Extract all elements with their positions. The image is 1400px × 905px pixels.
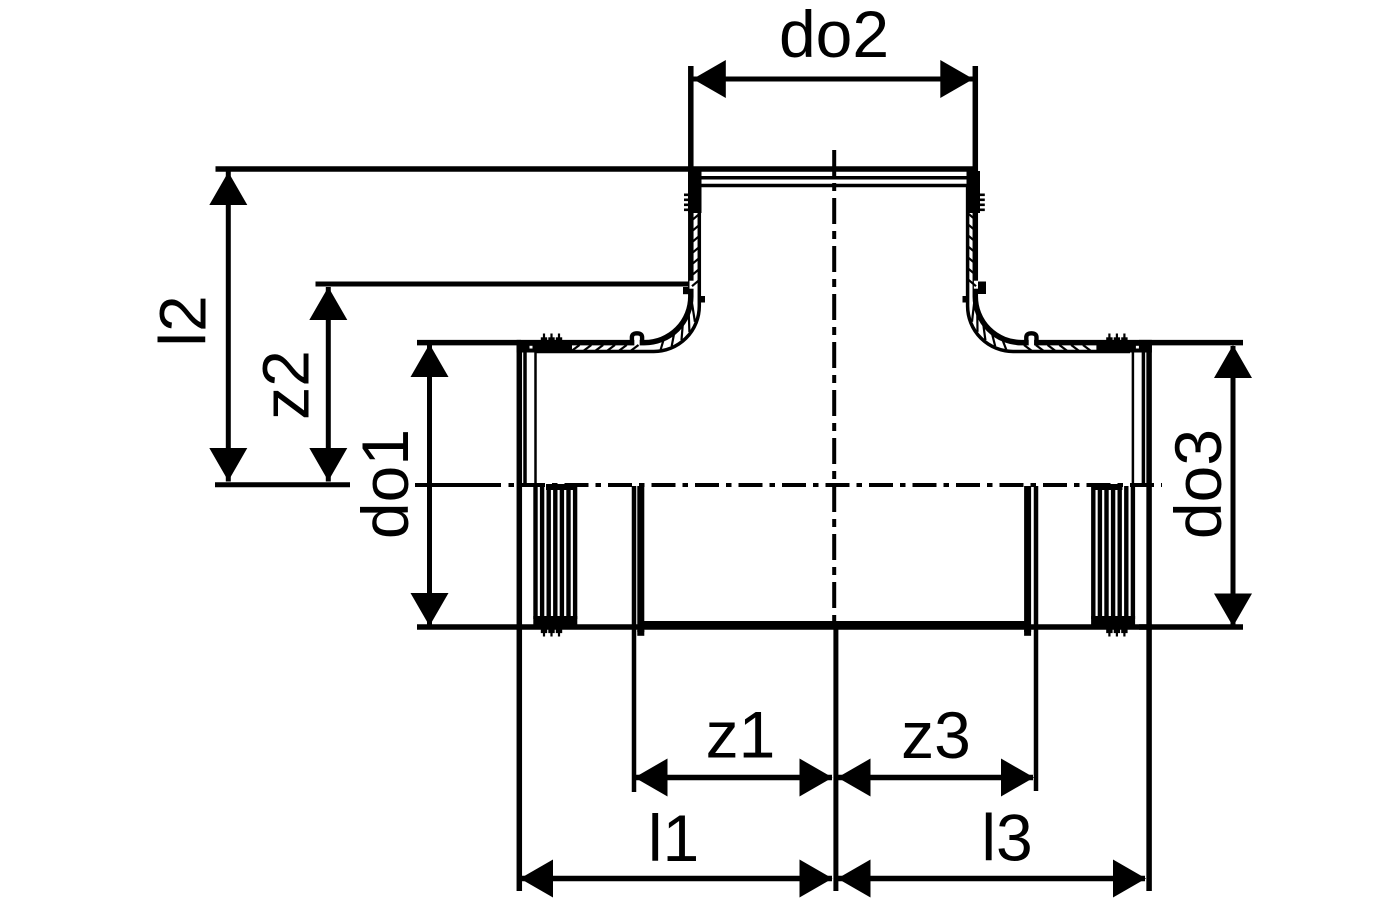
hatching right fillet <box>972 302 974 321</box>
arrowhead z1 right <box>800 759 833 797</box>
left fusion coil ribs (section lower half) <box>533 486 537 619</box>
arrowhead do3 bottom <box>1214 594 1252 627</box>
tab on branch right wall at socket depth <box>974 281 979 289</box>
top inner wall left + inner fillet <box>536 186 699 352</box>
arrowhead z3 left <box>838 759 871 797</box>
left socket lip line a <box>523 350 527 483</box>
arrowhead do3 top <box>1214 345 1252 378</box>
extension line do1 bottom <box>417 624 521 630</box>
dimension line z3 <box>838 775 1033 781</box>
weld beads top of right socket <box>1123 334 1125 342</box>
tab below bottom at left socket end <box>637 630 644 636</box>
extension line do3 top <box>1139 340 1243 346</box>
horizontal centerline of main run <box>415 483 501 487</box>
left socket lip line b <box>534 352 537 483</box>
extension line below left mouth (l1) <box>517 630 523 891</box>
hatching top wall left of branch <box>572 345 580 351</box>
branch mouth lip line 1 <box>699 176 974 180</box>
dimension line l3 <box>838 876 1145 882</box>
inner ridge branch left wall <box>699 296 705 303</box>
extension line do1 top <box>417 340 521 346</box>
arrowhead z3 right <box>1001 759 1034 797</box>
extension line below right mouth (l3) <box>1146 630 1152 891</box>
bottom inner wall <box>640 621 1027 626</box>
arrowhead l3 right <box>1113 860 1146 898</box>
weld beads top of left socket <box>543 334 545 342</box>
svg-text:z2: z2 <box>249 350 323 420</box>
arrowhead z2 bottom <box>309 448 347 481</box>
svg-text:do3: do3 <box>1161 429 1235 539</box>
tab on branch left wall at socket depth <box>690 281 695 289</box>
hatching branch left wall <box>692 214 700 220</box>
arrowhead z2 top <box>309 287 347 320</box>
extension line center below (z1/z3/l1/l3) <box>833 629 838 891</box>
notch in left mouth block <box>530 346 533 349</box>
svg-text:l1: l1 <box>648 801 699 875</box>
hatching branch right wall <box>969 214 977 220</box>
extension line l2 top / branch mouth top edge <box>216 166 979 171</box>
right socket lip line a <box>1142 350 1146 483</box>
branch left wall solid section near mouth <box>688 171 702 213</box>
inner ridge branch right wall <box>963 296 969 303</box>
dimension line do2 <box>693 77 974 82</box>
svg-text:do1: do1 <box>348 429 422 539</box>
top inner wall right + inner fillet <box>968 186 1130 352</box>
dimension line l1 <box>522 876 832 882</box>
arrowhead l2 bottom <box>209 448 247 481</box>
notch in right mouth block <box>1136 346 1139 349</box>
bottom outer wall <box>517 624 1152 630</box>
svg-text:l3: l3 <box>981 801 1032 875</box>
tab on top surface at left socket end <box>634 338 639 348</box>
solid wall block right mouth top <box>1096 340 1152 352</box>
arrowhead do2 left <box>693 60 726 98</box>
arrowhead l1 right <box>800 860 833 898</box>
dimension line do3 <box>1231 346 1236 626</box>
extension line do2 left <box>688 66 694 170</box>
arrowhead do1 top <box>411 344 449 377</box>
extension line do3 bottom <box>1139 624 1243 630</box>
svg-text:z3: z3 <box>901 698 971 772</box>
weld beads bottom of left socket <box>543 630 545 637</box>
arrowhead do1 bottom <box>411 593 449 626</box>
weld beads bottom of right socket <box>1123 630 1125 637</box>
top outer wall right + fillet into branch right outer wall <box>975 170 1152 343</box>
extension line below left socket end (z1) <box>632 486 637 792</box>
hatching top wall right of branch <box>1024 345 1032 351</box>
left mouth edge (socket end face) <box>517 340 523 630</box>
solid wall block left mouth top <box>517 340 573 352</box>
extension line below right socket end (z3) <box>1034 486 1039 791</box>
right fusion coil ribs (section lower half) <box>1131 486 1135 619</box>
arrowhead l3 left <box>838 860 871 898</box>
vertical centerline of branch <box>832 150 836 628</box>
dimension line z2 <box>326 287 331 482</box>
extension line l2/z2 bottom (at main axis) <box>215 482 350 487</box>
dimension line do1 <box>427 345 432 625</box>
right mouth edge (socket end face) <box>1146 340 1152 630</box>
weld beads on branch right wall <box>979 194 985 197</box>
svg-text:l2: l2 <box>146 295 220 346</box>
arrowhead do2 right <box>940 60 973 98</box>
tab below bottom at right socket end <box>1024 630 1031 636</box>
dimension line l2 <box>226 172 231 482</box>
tab on top surface at right socket end <box>1029 338 1034 348</box>
svg-text:z1: z1 <box>706 698 776 772</box>
dimension line z1 <box>636 775 832 781</box>
top outer wall left + fillet into branch left outer wall <box>517 170 691 343</box>
weld beads on branch left wall <box>684 194 690 197</box>
hatching left fillet <box>692 302 695 321</box>
extension line z2 (socket depth of branch) <box>316 282 690 287</box>
branch right wall solid section near mouth <box>967 171 981 213</box>
left socket end step (section, thick) <box>637 486 644 632</box>
svg-text:do2: do2 <box>779 0 889 71</box>
arrowhead l2 top <box>209 172 247 205</box>
right socket end step (section, thick) <box>1024 486 1031 632</box>
branch mouth lip line 2 <box>701 184 972 188</box>
extension line do2 right <box>973 66 979 170</box>
arrowhead z1 left <box>635 759 668 797</box>
right socket lip line b <box>1132 352 1135 483</box>
arrowhead l1 left <box>520 860 553 898</box>
